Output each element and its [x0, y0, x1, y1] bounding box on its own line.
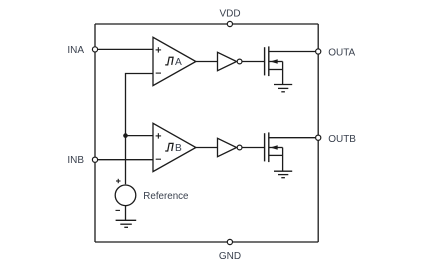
wire comparator A inverting input to reference node — [126, 74, 154, 185]
svg-text:INA: INA — [67, 45, 84, 56]
wire comparator B output — [196, 147, 218, 149]
node INB terminal — [92, 157, 97, 162]
svg-text:OUTB: OUTB — [328, 134, 356, 145]
node junction dot reference net — [123, 133, 128, 138]
wire bottom GND rail — [95, 241, 318, 243]
wire left border rail — [94, 24, 96, 242]
wire comparator B noninverting input branch — [126, 135, 154, 137]
svg-text:OUTA: OUTA — [328, 48, 355, 59]
wire comparator A output — [196, 61, 218, 63]
voltage source Reference — [115, 179, 136, 221]
node OUTA terminal — [316, 49, 321, 54]
transistor Q1 output MOSFET A — [265, 46, 283, 84]
svg-text:GND: GND — [219, 251, 241, 262]
op-amp U2 comparator B — [153, 123, 196, 171]
node INA terminal — [92, 47, 97, 52]
svg-text:INB: INB — [67, 155, 84, 166]
node GND terminal — [227, 239, 232, 244]
wire drain B to OUTB — [269, 137, 318, 139]
svg-text:VDD: VDD — [219, 9, 240, 20]
ground under Reference — [116, 220, 137, 227]
wire drain A to OUTA — [269, 51, 318, 53]
node OUTB terminal — [316, 135, 321, 140]
node VDD terminal — [227, 21, 232, 26]
svg-text:B: B — [175, 143, 182, 154]
wire inverter B output to gate — [242, 147, 264, 149]
wire right border rail — [317, 24, 319, 242]
svg-text:Reference: Reference — [143, 191, 189, 202]
transistor Q2 output MOSFET B — [265, 132, 283, 171]
ground under MOSFET A — [274, 85, 292, 92]
wire top VDD rail — [95, 23, 318, 25]
inverter buffer B — [218, 138, 243, 156]
op-amp U1 comparator A — [153, 37, 196, 85]
wire INB input — [95, 159, 153, 161]
ground under MOSFET B — [274, 171, 292, 178]
wire INA input — [95, 48, 153, 50]
wire inverter A output to gate — [242, 61, 264, 63]
svg-text:A: A — [175, 57, 182, 68]
inverter buffer A — [218, 52, 243, 70]
